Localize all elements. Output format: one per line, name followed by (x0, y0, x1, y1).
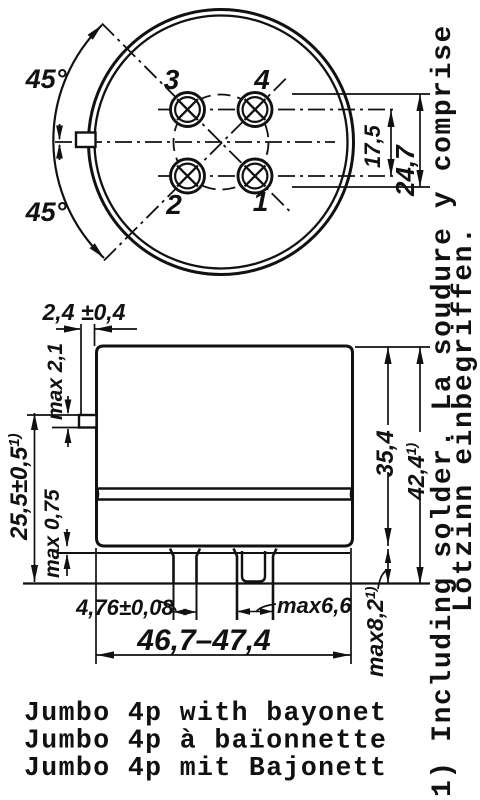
svg-text:Jumbo 4p mit Bajonett: Jumbo 4p mit Bajonett (24, 753, 387, 783)
svg-text:17,5: 17,5 (360, 124, 385, 168)
svg-text:46,7–47,4: 46,7–47,4 (136, 624, 271, 657)
svg-text:25,5±0,51): 25,5±0,51) (6, 433, 33, 541)
svg-text:Jumbo 4p with bayonet: Jumbo 4p with bayonet (24, 698, 387, 728)
svg-text:2: 2 (165, 189, 182, 220)
svg-text:45°: 45° (25, 64, 67, 94)
svg-text:1: 1 (253, 186, 269, 217)
svg-text:35,4: 35,4 (372, 430, 399, 477)
svg-text:4,76±0,08: 4,76±0,08 (75, 595, 174, 620)
svg-text:max6,6: max6,6 (277, 593, 352, 618)
svg-text:4: 4 (253, 64, 270, 95)
svg-text:max 2,1: max 2,1 (44, 343, 67, 420)
svg-text:Lötzinn einbegriffen.: Lötzinn einbegriffen. (449, 226, 480, 612)
svg-text:45°: 45° (25, 197, 67, 227)
svg-text:3: 3 (164, 64, 180, 95)
svg-text:Jumbo 4p à baïonnette: Jumbo 4p à baïonnette (24, 726, 387, 756)
svg-text:2,4 ±0,4: 2,4 ±0,4 (42, 299, 126, 325)
svg-text:max 0,75: max 0,75 (41, 489, 64, 578)
svg-text:24,7: 24,7 (390, 144, 420, 197)
svg-text:max8,21): max8,21) (362, 586, 388, 677)
